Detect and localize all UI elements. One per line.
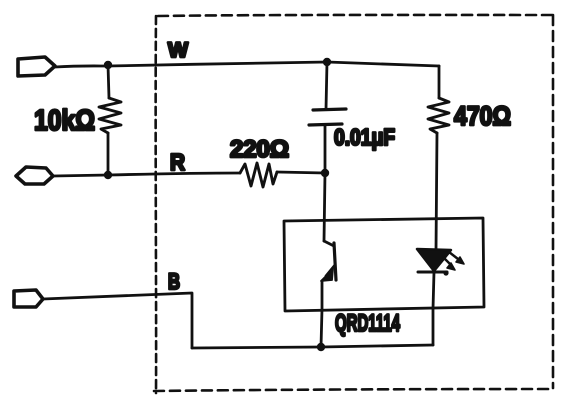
svg-text:QRD1114: QRD1114 bbox=[335, 310, 400, 337]
svg-text:10kΩ: 10kΩ bbox=[34, 105, 95, 137]
svg-text:W: W bbox=[168, 39, 188, 62]
svg-text:220Ω: 220Ω bbox=[230, 136, 289, 163]
svg-text:R: R bbox=[170, 149, 185, 175]
svg-text:470Ω: 470Ω bbox=[454, 101, 511, 131]
svg-text:0.01μF: 0.01μF bbox=[334, 124, 395, 150]
svg-text:B: B bbox=[168, 269, 180, 294]
